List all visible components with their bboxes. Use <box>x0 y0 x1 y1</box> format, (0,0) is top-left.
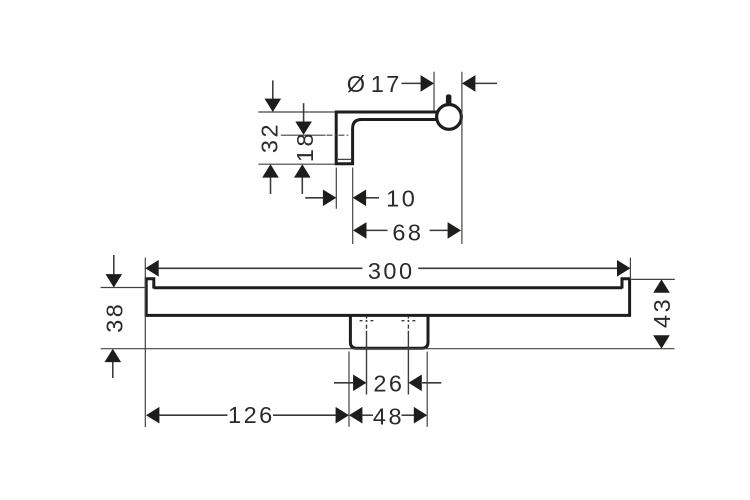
svg-text:38: 38 <box>102 302 128 333</box>
svg-text:43: 43 <box>649 297 675 328</box>
svg-text:48: 48 <box>373 404 404 430</box>
svg-text:Ø: Ø <box>347 71 368 97</box>
svg-text:17: 17 <box>371 71 402 97</box>
svg-text:26: 26 <box>373 371 404 397</box>
svg-text:126: 126 <box>228 402 275 428</box>
svg-text:10: 10 <box>386 186 417 212</box>
svg-text:32: 32 <box>257 122 283 153</box>
svg-text:68: 68 <box>392 220 423 246</box>
svg-text:18: 18 <box>292 131 318 162</box>
svg-text:300: 300 <box>368 258 415 284</box>
